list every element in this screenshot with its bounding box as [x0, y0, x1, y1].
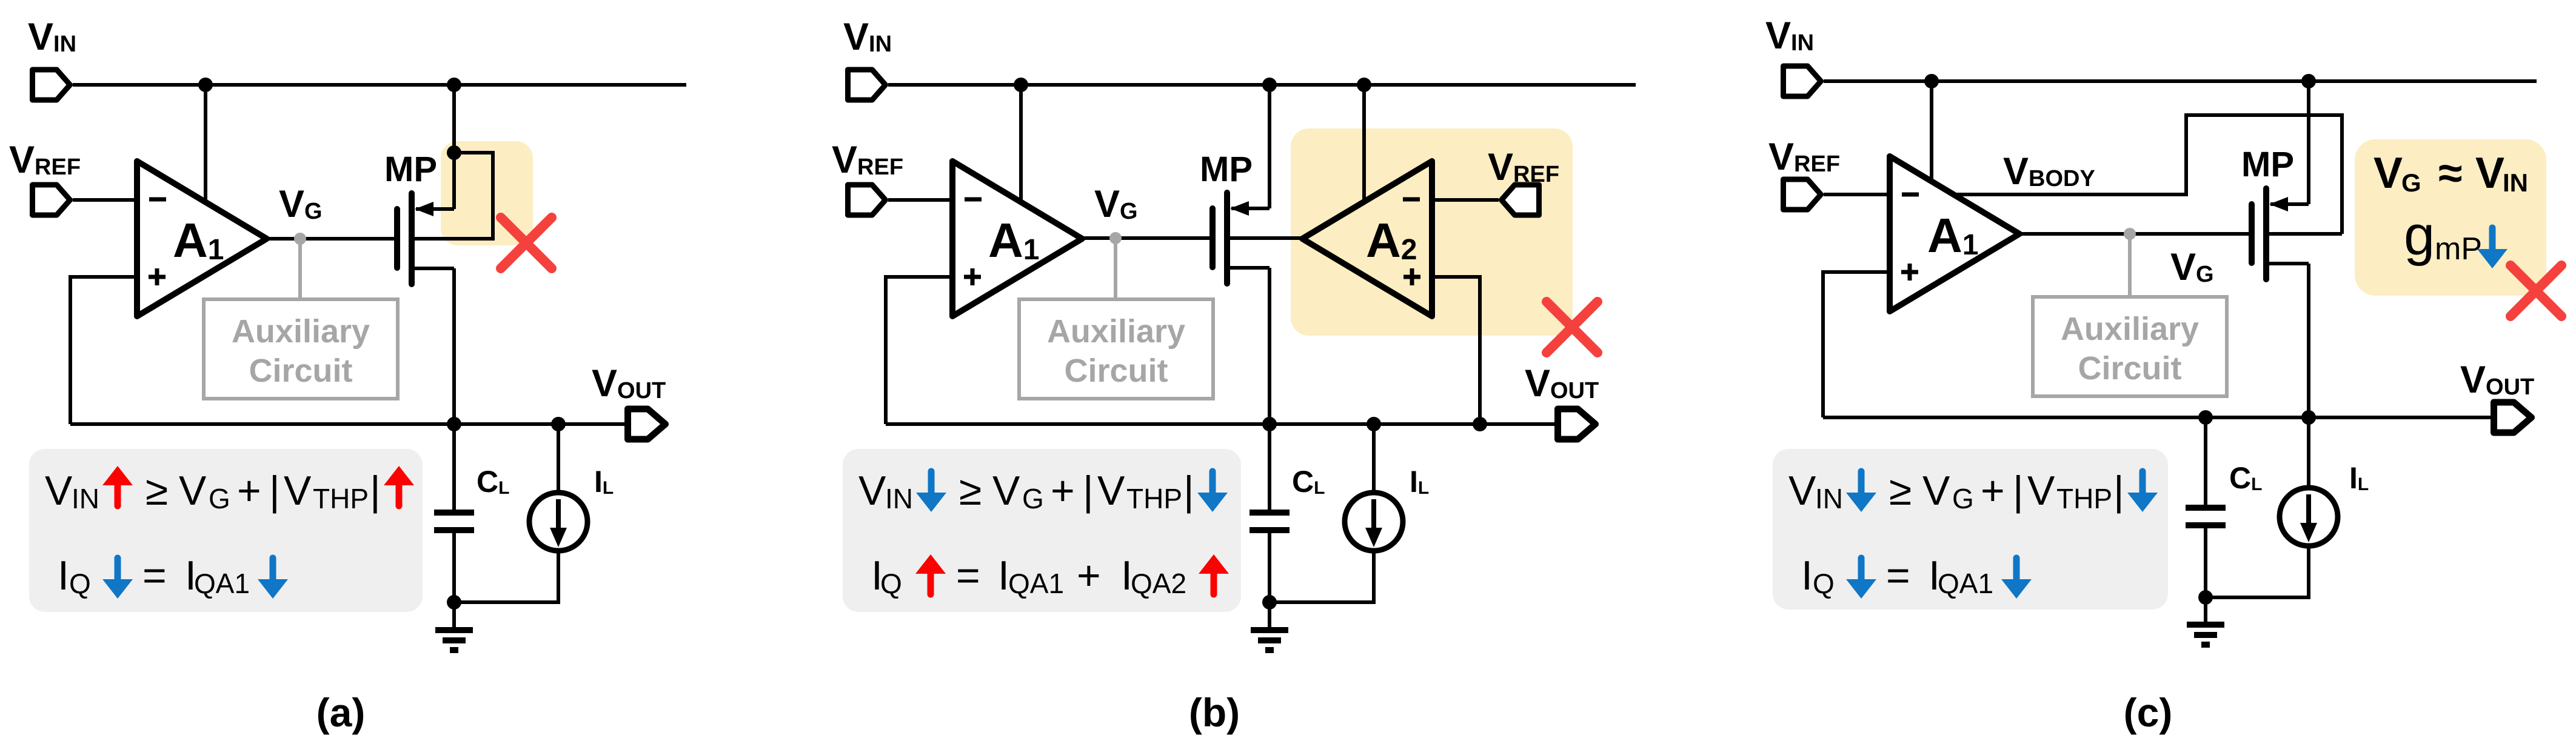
junction dot rail/MP source — [2301, 74, 2316, 88]
wire MP source to rail — [452, 85, 456, 209]
junction dot rail/A1 bias — [198, 78, 213, 92]
svg-text:MP: MP — [2241, 145, 2294, 184]
wire MP drain down — [1268, 268, 1271, 512]
blue arrow down 1 — [1846, 471, 1876, 512]
wire CL bottom — [1268, 533, 1271, 602]
junction dot rail/MP source — [447, 78, 461, 92]
svg-text:Auxiliary: Auxiliary — [2061, 311, 2199, 347]
svg-text:+: + — [1077, 553, 1101, 599]
wire A1 bias — [204, 85, 207, 202]
auxiliary circuit box — [2033, 297, 2227, 396]
junction dot drain/IL — [2301, 410, 2316, 425]
wire A1 feedback from VOUT to + input — [1823, 272, 1890, 417]
svg-text:V: V — [179, 468, 207, 514]
svg-text:V: V — [284, 468, 312, 514]
svg-text:V: V — [45, 468, 73, 514]
equation box (b) — [843, 449, 1241, 612]
svg-text:|: | — [1083, 468, 1094, 514]
node VG dot — [1109, 232, 1122, 244]
op-amp A1 — [1890, 156, 2019, 311]
svg-text:IN: IN — [72, 483, 99, 514]
junction dot drain/CL — [1262, 417, 1277, 431]
junction dot rail/A2 bias — [1357, 78, 1371, 92]
op-amp A1 — [137, 161, 267, 316]
wire VG gate — [2019, 232, 2249, 236]
red X (c) — [2511, 265, 2561, 316]
svg-text:G: G — [1952, 483, 1974, 514]
wire VIN rail — [73, 83, 686, 87]
svg-text:Auxiliary: Auxiliary — [1047, 313, 1185, 350]
port flag VOUT — [2494, 402, 2532, 433]
junction dot body tap — [447, 145, 461, 160]
svg-text:Circuit: Circuit — [1064, 353, 1168, 389]
svg-text:G: G — [209, 483, 230, 514]
wire VOUT rail — [886, 422, 1557, 426]
wire A1 feedback from VOUT to + input — [70, 277, 137, 424]
red arrow up 2 — [384, 466, 414, 506]
capacitor CL — [434, 513, 474, 530]
red X (a) — [501, 218, 552, 268]
transistor MP — [397, 193, 454, 284]
svg-text:QA1: QA1 — [1938, 568, 1993, 599]
wire VOUT rail — [70, 422, 626, 426]
svg-text:THP: THP — [313, 483, 369, 514]
wire IL top — [1372, 424, 1376, 493]
svg-text:=: = — [142, 553, 167, 599]
svg-text:|: | — [269, 468, 280, 514]
svg-text:|: | — [1183, 468, 1194, 514]
junction dot CL — [2198, 410, 2213, 425]
blue arrow down 4 — [2001, 558, 2032, 599]
port flag VIN — [33, 70, 70, 100]
svg-text:V: V — [858, 468, 886, 514]
wire A1 bias — [1019, 85, 1023, 202]
wire VG gate — [267, 237, 394, 241]
wire VOUT rail — [1823, 416, 2493, 419]
wire MP body stub — [2267, 232, 2342, 236]
port flag VREF (A2, mirrored) — [1502, 185, 1539, 215]
svg-text:V: V — [2374, 149, 2403, 198]
svg-text:QA1: QA1 — [194, 568, 250, 599]
red arrow up 2 — [1199, 554, 1229, 594]
wire A1 bias — [1930, 81, 1933, 182]
svg-text:MP: MP — [384, 150, 437, 189]
wire IL bottom — [2206, 545, 2309, 597]
equation box (a) — [29, 449, 423, 612]
junction dot ground node — [1262, 595, 1277, 609]
wire gray to auxiliary box — [1114, 238, 1117, 299]
svg-text:V: V — [992, 468, 1020, 514]
svg-text:Auxiliary: Auxiliary — [232, 313, 370, 350]
port flag VOUT — [1558, 409, 1596, 439]
blue arrow down 1 — [102, 558, 133, 599]
svg-text:G: G — [2401, 168, 2421, 197]
blue arrow down 2 — [1197, 471, 1228, 512]
wire IL bottom — [1270, 550, 1374, 602]
wire VG gate — [1082, 236, 1209, 240]
wire body tie — [413, 153, 493, 239]
highlight box around A2 — [1291, 128, 1573, 336]
svg-text:+: + — [1981, 468, 2005, 514]
svg-text:THP: THP — [1126, 483, 1182, 514]
svg-text:V: V — [1788, 468, 1816, 514]
svg-text:V: V — [2027, 468, 2055, 514]
highlight box VG approx VIN — [2355, 139, 2546, 296]
svg-text:IN: IN — [2503, 168, 2528, 197]
wire MP drain down — [452, 268, 456, 512]
wire gray to auxiliary box — [2128, 234, 2132, 297]
svg-text:THP: THP — [2056, 483, 2112, 514]
svg-text:≥: ≥ — [1889, 468, 1912, 514]
ground — [2187, 597, 2224, 645]
red X (b) — [1547, 302, 1597, 353]
svg-text:IN: IN — [1815, 483, 1843, 514]
junction dot rail/A1 bias — [1924, 74, 1939, 88]
wire IL top — [557, 424, 560, 493]
wire VBODY to MP body — [1953, 115, 2342, 234]
wire A1 feedback from VOUT to + input — [886, 277, 952, 424]
svg-text:Q: Q — [69, 568, 91, 599]
port flag VREF — [33, 185, 70, 215]
blue arrow down 2 — [258, 558, 288, 599]
blue arrow down 3 — [1846, 558, 1876, 599]
port flag VIN — [1784, 66, 1821, 96]
blue arrow down 1 — [916, 471, 946, 512]
auxiliary circuit box — [204, 299, 398, 399]
svg-text:IN: IN — [885, 483, 913, 514]
svg-text:(b): (b) — [1189, 690, 1240, 735]
wire CL top — [2204, 417, 2207, 505]
wire VREF to A1 inverting input — [888, 198, 952, 202]
equation (c) line 2 — [1801, 553, 1993, 599]
svg-text:|: | — [2113, 468, 2124, 514]
svg-text:|: | — [2013, 468, 2024, 514]
highlight text VG approx VIN — [2374, 149, 2528, 198]
wire CL bottom — [2204, 528, 2207, 597]
wire MP body to A2 output — [1228, 236, 1302, 240]
svg-text:(a): (a) — [316, 690, 366, 735]
port flag VREF — [848, 185, 886, 215]
svg-text:I: I — [58, 553, 69, 599]
highlight box around MP body tie — [441, 141, 533, 245]
wire MP source to rail — [2307, 81, 2310, 204]
svg-text:=: = — [956, 553, 980, 599]
junction dot rail/A1 bias — [1014, 78, 1028, 92]
port flag VIN — [848, 70, 886, 100]
blue arrow down gmP — [2477, 228, 2507, 268]
svg-text:V: V — [1922, 468, 1950, 514]
equation box (c) — [1773, 449, 2168, 609]
svg-text:V: V — [2475, 149, 2504, 198]
svg-text:I: I — [1801, 553, 1813, 599]
node VG dot — [294, 233, 306, 245]
svg-text:V: V — [1097, 468, 1125, 514]
wire VIN rail — [888, 83, 1636, 87]
junction dot drain/CL — [447, 417, 461, 431]
svg-text:≈: ≈ — [2438, 149, 2463, 198]
equation (c) line 1 — [1788, 468, 2124, 514]
node VG dot — [2124, 228, 2136, 240]
svg-text:+: + — [237, 468, 261, 514]
wire gray to auxiliary box — [298, 239, 302, 299]
junction dot IL — [1367, 417, 1381, 431]
transistor MP — [1213, 193, 1270, 284]
svg-text:Circuit: Circuit — [249, 353, 352, 389]
wire VREF to A1 inverting input — [1824, 193, 1890, 196]
op-amp A1 — [952, 161, 1082, 316]
svg-text:MP: MP — [1200, 150, 1253, 189]
wire MP drain down to IL — [2307, 264, 2310, 489]
capacitor CL — [2186, 508, 2226, 525]
svg-text:Q: Q — [1813, 568, 1835, 599]
transistor MP — [2252, 188, 2309, 279]
red arrow up 1 — [102, 466, 133, 506]
capacitor CL — [1250, 513, 1290, 530]
red arrow up 1 — [915, 554, 946, 594]
junction dot rail/MP source — [1262, 78, 1277, 92]
junction dot IL — [551, 417, 566, 431]
port flag VOUT — [628, 409, 666, 439]
blue arrow down 2 — [2127, 471, 2158, 512]
wire A2 inverting input — [1432, 198, 1499, 202]
svg-text:mP: mP — [2435, 231, 2482, 267]
svg-text:≥: ≥ — [146, 468, 168, 514]
wire MP source to rail — [1268, 85, 1271, 208]
svg-text:(c): (c) — [2124, 690, 2173, 735]
svg-text:G: G — [1022, 483, 1044, 514]
wire IL bottom — [454, 550, 558, 602]
wire VIN rail — [1824, 79, 2537, 83]
current source IL — [1345, 493, 1403, 551]
svg-text:QA2: QA2 — [1131, 568, 1186, 599]
ground — [1251, 602, 1288, 650]
svg-text:|: | — [370, 468, 381, 514]
junction dot ground node — [2198, 590, 2213, 605]
junction dot A2 feedback — [1473, 417, 1487, 431]
wire A2 bias — [1362, 85, 1366, 201]
svg-text:QA1: QA1 — [1008, 568, 1064, 599]
svg-text:≥: ≥ — [959, 468, 982, 514]
equation (a) line 1 — [45, 468, 381, 514]
port flag VREF — [1784, 179, 1821, 210]
equation (a) line 2 — [58, 553, 250, 599]
svg-text:g: g — [2404, 205, 2435, 267]
ground — [435, 602, 473, 650]
current source IL — [2280, 488, 2338, 546]
wire A2 + input to VOUT — [1432, 277, 1480, 424]
junction dot ground node — [447, 595, 461, 609]
wire CL bottom — [452, 533, 456, 602]
svg-text:=: = — [1886, 553, 1910, 599]
equation (b) line 2 — [871, 553, 1186, 599]
current source IL — [529, 493, 587, 551]
svg-text:+: + — [1051, 468, 1075, 514]
svg-text:Circuit: Circuit — [2078, 350, 2181, 387]
auxiliary circuit box — [1019, 299, 1213, 399]
wire VREF to A1 inverting input — [73, 198, 137, 202]
svg-text:Q: Q — [880, 568, 902, 599]
op-amp A2 — [1302, 161, 1432, 316]
equation (b) line 1 — [858, 468, 1194, 514]
